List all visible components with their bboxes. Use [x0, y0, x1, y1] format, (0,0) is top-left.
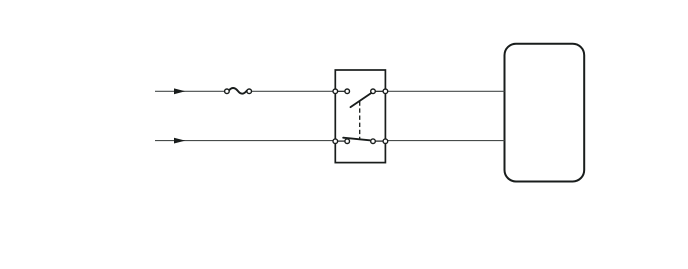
fuse F1 wavy element: [229, 88, 247, 94]
switch blade top pole (open): [351, 93, 372, 107]
switch enclosure box S1: [335, 70, 385, 163]
wire top line from switch box to load: [385, 90, 504, 92]
terminal pin 2 (top-right box edge): [383, 89, 388, 94]
stub wire top-left inside box: [335, 90, 347, 92]
terminal pin 3 (bottom-left box edge): [333, 139, 338, 144]
fuse F1 left terminal: [225, 89, 230, 94]
arrow on top line L1 (direction of flow): [174, 88, 185, 94]
wire top line L1 fuse to switch box: [249, 90, 335, 92]
wire top line L1 left segment (source to fuse): [155, 90, 227, 92]
contact b2 (bottom-right inner): [371, 139, 376, 144]
arrow on bottom line L2 (direction of flow): [174, 138, 185, 144]
wire bottom line L2 (source to switch box): [155, 140, 335, 142]
stub wire bottom-left inside box: [335, 140, 347, 142]
contact a2 (top-right inner): [371, 89, 376, 94]
switch blade bottom pole (closed): [343, 138, 370, 141]
stub wire bottom-right inside box: [373, 140, 385, 142]
fuse F1 right terminal: [247, 89, 252, 94]
terminal pin 1 (top-left box edge): [333, 89, 338, 94]
terminal pin 4 (bottom-right box edge): [383, 139, 388, 144]
contact b1 (bottom-left inner): [345, 139, 350, 144]
stub wire top-right inside box: [373, 90, 385, 92]
wire bottom line from switch box to load: [385, 140, 504, 142]
mechanical link (dashed) between poles: [359, 101, 361, 139]
load / device box M1 (rounded rectangle): [505, 44, 585, 182]
contact a1 (top-left inner): [345, 89, 350, 94]
